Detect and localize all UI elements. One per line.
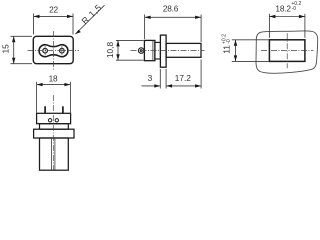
svg-text:17.2: 17.2 (175, 73, 192, 83)
front block face line (152, 40, 154, 60)
pin ring inner (140, 50, 142, 52)
side view rear body (166, 43, 201, 57)
dimension 10,8 (116, 40, 144, 60)
right pin centerline tick (61, 46, 63, 55)
svg-text:11: 11 (221, 45, 231, 54)
svg-text:3: 3 (148, 73, 153, 83)
body inner line left (50, 138, 52, 170)
bottom view right pin (62, 106, 64, 113)
dimension 18 (37, 82, 71, 113)
dimension 11 +0.2/-0 (232, 40, 269, 62)
dimension 3 (142, 69, 167, 89)
front view vertical centerline (53, 31, 55, 70)
svg-text:R 1,5: R 1,5 (80, 2, 104, 26)
dimension 28.6 (145, 15, 202, 43)
svg-text:22: 22 (49, 5, 58, 15)
cutout horizontal centerline (261, 50, 314, 52)
svg-text:15: 15 (0, 44, 10, 54)
bottom view flange (34, 129, 74, 138)
svg-text:18: 18 (49, 74, 58, 84)
svg-text:10,8: 10,8 (105, 42, 115, 59)
pin ring outer (138, 48, 144, 54)
side view front block (144, 40, 155, 60)
bottom view top block (37, 113, 71, 123)
svg-text:18.2: 18.2 (275, 4, 291, 14)
bottom view step (40, 124, 69, 130)
dimension 17.2 (166, 60, 201, 89)
left pin centerline tick (44, 46, 46, 55)
left pin circle (43, 48, 48, 53)
top block left hole (48, 119, 51, 122)
dimension 22 (34, 14, 74, 35)
radius callout R 1,5 (75, 5, 104, 34)
top block right hole (55, 119, 58, 122)
svg-text:-0: -0 (226, 39, 232, 44)
figure-8 recess outline (39, 45, 68, 57)
front view horizontal centerline (28, 50, 80, 52)
side view neck (155, 42, 161, 59)
side view flange (160, 35, 166, 67)
panel cutout rectangle (269, 40, 305, 62)
cutout vertical centerline (286, 33, 288, 68)
right pin circle (60, 48, 65, 53)
bottom view left pin (44, 106, 46, 113)
svg-text:-0: -0 (292, 6, 297, 12)
dimension 18.2 +0.2/-0 (269, 14, 305, 38)
front view body outline (33, 36, 73, 63)
svg-text:28.6: 28.6 (163, 4, 179, 14)
panel blob outline (256, 31, 318, 73)
side view horizontal centerline (131, 50, 205, 52)
body inner line right (54, 138, 56, 170)
bottom view vertical centerline (52, 95, 54, 173)
dimension 15 (11, 36, 33, 63)
bottom view lower body (40, 138, 69, 170)
